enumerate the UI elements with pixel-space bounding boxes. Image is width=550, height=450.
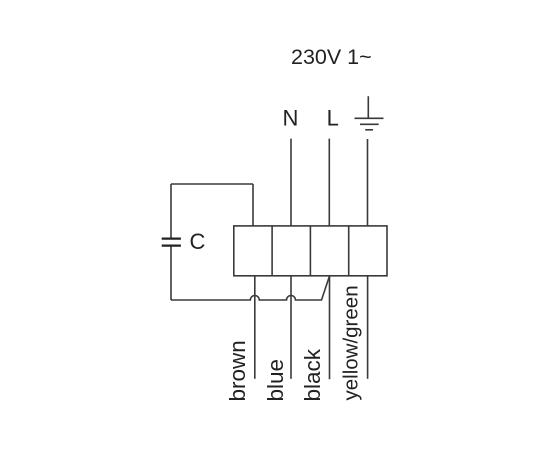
svg-text:blue: blue (263, 359, 288, 402)
svg-text:230V 1~: 230V 1~ (291, 45, 372, 69)
svg-text:N: N (283, 105, 299, 130)
svg-text:L: L (327, 105, 339, 130)
svg-text:yellow/green: yellow/green (340, 285, 363, 400)
svg-text:C: C (190, 229, 206, 254)
svg-text:brown: brown (225, 340, 250, 401)
svg-text:black: black (300, 348, 325, 401)
